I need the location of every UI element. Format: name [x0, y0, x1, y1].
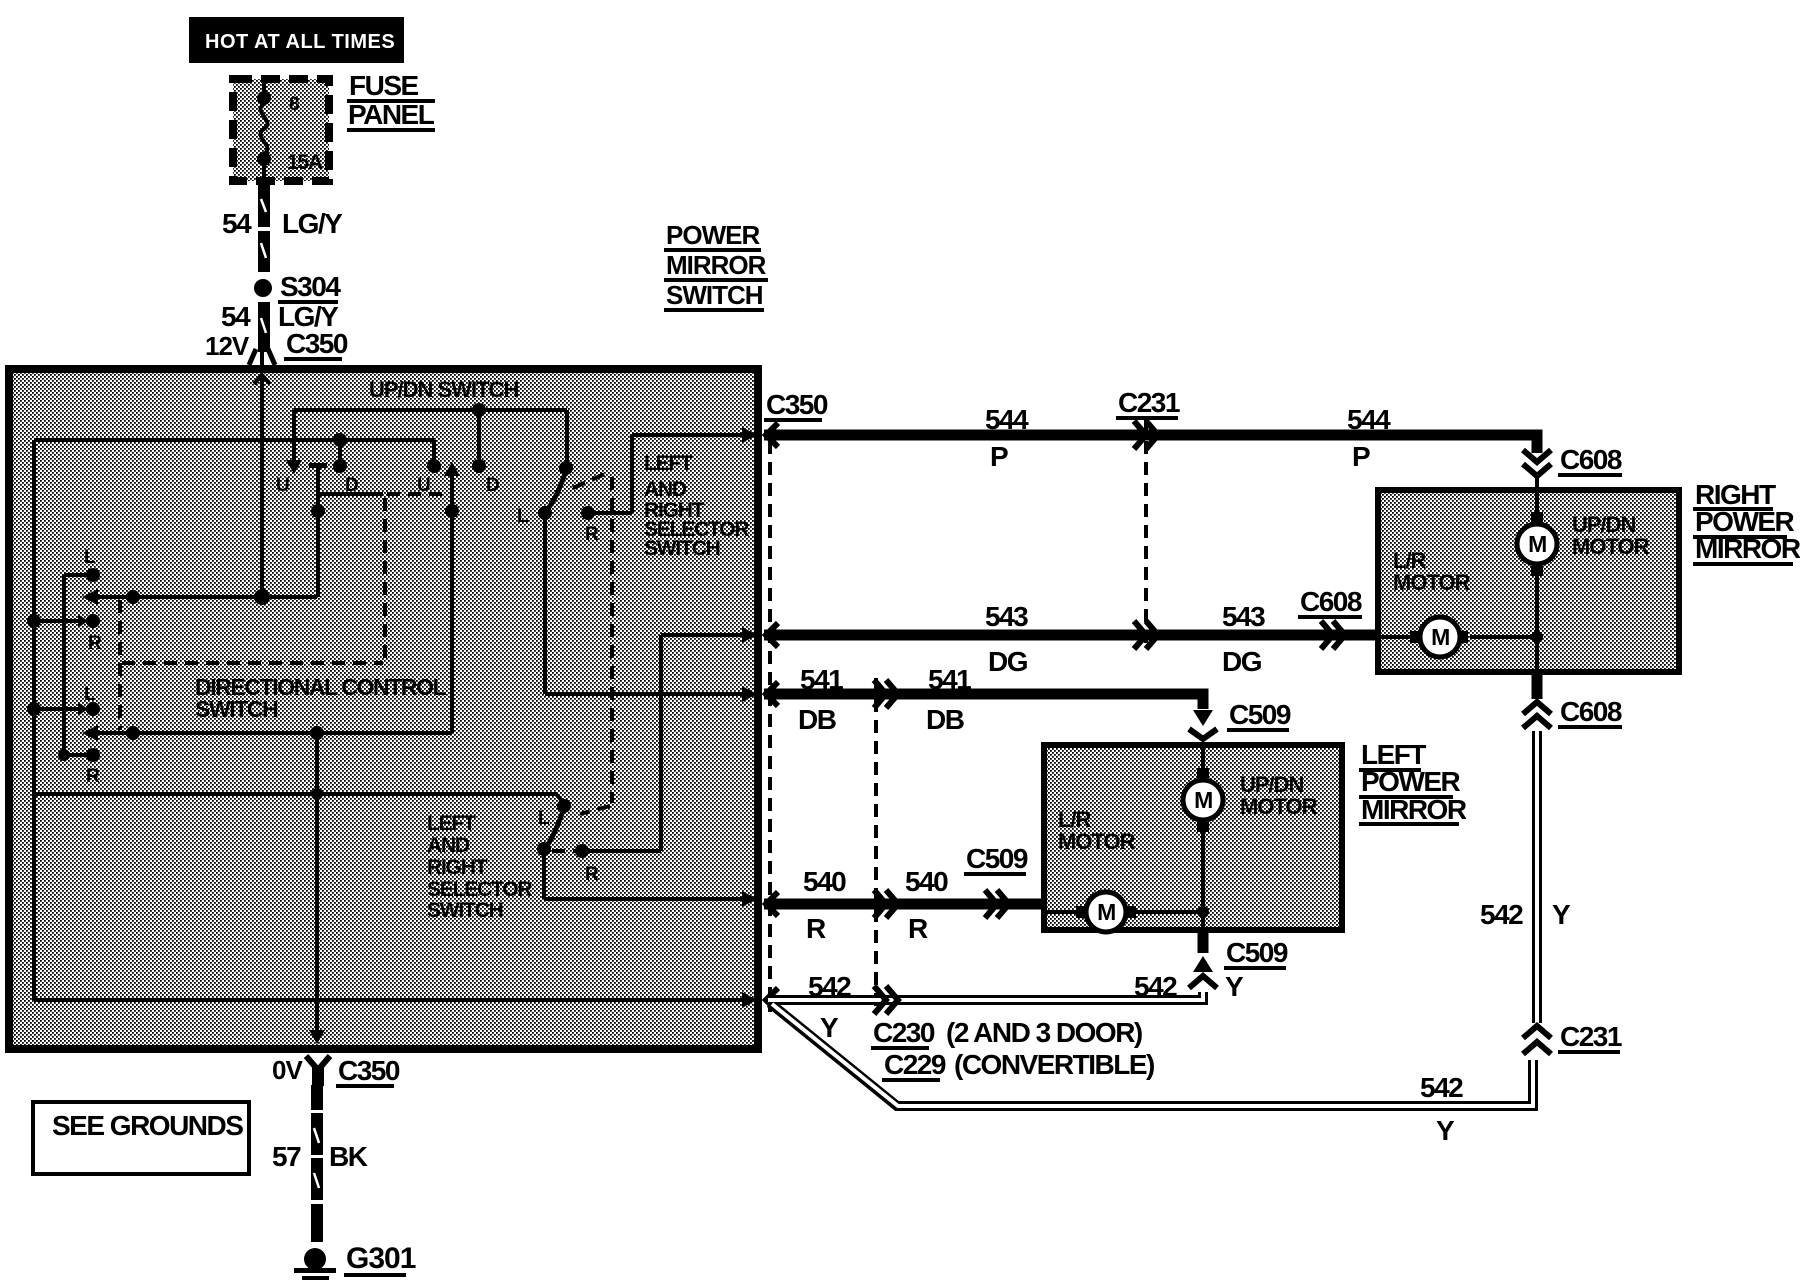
svg-text:AND: AND [427, 834, 470, 857]
svg-text:MOTOR: MOTOR [1240, 794, 1318, 819]
svg-text:M: M [1528, 531, 1546, 557]
svg-text:M: M [1097, 899, 1115, 925]
svg-text:U: U [276, 475, 289, 496]
svg-text:HOT AT ALL TIMES: HOT AT ALL TIMES [205, 31, 395, 53]
svg-text:Y: Y [1552, 899, 1571, 930]
svg-text:AND: AND [644, 478, 687, 501]
svg-text:12V: 12V [205, 331, 250, 361]
svg-text:0V: 0V [272, 1055, 303, 1085]
svg-text:15A: 15A [287, 151, 323, 174]
svg-text:U: U [417, 475, 430, 496]
svg-text:C509: C509 [1226, 937, 1288, 968]
svg-text:542: 542 [808, 971, 851, 1002]
svg-text:G301: G301 [346, 1242, 416, 1275]
svg-text:M: M [1431, 624, 1449, 650]
svg-text:SWITCH: SWITCH [644, 537, 720, 560]
svg-text:540: 540 [905, 866, 948, 897]
svg-text:544: 544 [1347, 404, 1391, 435]
svg-text:54: 54 [221, 301, 251, 332]
svg-text:SEE GROUNDS: SEE GROUNDS [52, 1110, 243, 1141]
svg-text:LEFT: LEFT [644, 452, 693, 475]
svg-text:POWER: POWER [1361, 766, 1461, 797]
svg-text:MIRROR: MIRROR [1361, 794, 1467, 825]
svg-text:Y: Y [1225, 971, 1244, 1002]
svg-text:C350: C350 [766, 389, 828, 420]
svg-text:R: R [86, 766, 100, 787]
svg-text:(CONVERTIBLE): (CONVERTIBLE) [954, 1049, 1154, 1080]
svg-text:BK: BK [329, 1141, 368, 1172]
svg-text:R: R [88, 633, 102, 654]
svg-text:543: 543 [985, 601, 1028, 632]
svg-text:PANEL: PANEL [348, 99, 435, 130]
svg-text:FUSE: FUSE [349, 70, 419, 101]
svg-text:54: 54 [222, 208, 252, 239]
svg-text:540: 540 [803, 866, 846, 897]
svg-text:LEFT: LEFT [427, 812, 476, 835]
svg-text:DG: DG [1222, 646, 1262, 677]
svg-text:(2 AND 3 DOOR): (2 AND 3 DOOR) [946, 1017, 1142, 1048]
svg-text:LG/Y: LG/Y [282, 208, 343, 239]
svg-text:R: R [585, 864, 599, 885]
svg-text:SELECTOR: SELECTOR [427, 878, 532, 901]
svg-text:C608: C608 [1560, 444, 1622, 475]
svg-text:P: P [990, 441, 1008, 472]
svg-text:D: D [486, 475, 499, 496]
svg-text:57: 57 [272, 1141, 301, 1172]
svg-text:L: L [517, 506, 529, 527]
svg-text:SWITCH: SWITCH [666, 280, 763, 310]
svg-text:MIRROR: MIRROR [666, 250, 767, 280]
svg-text:R: R [806, 913, 826, 944]
svg-text:542: 542 [1420, 1072, 1463, 1103]
svg-text:UP/DN SWITCH: UP/DN SWITCH [369, 377, 518, 402]
svg-text:RIGHT: RIGHT [427, 856, 488, 879]
svg-text:542: 542 [1134, 971, 1177, 1002]
svg-text:C509: C509 [966, 843, 1028, 874]
svg-text:M: M [1194, 787, 1212, 813]
svg-text:DG: DG [988, 646, 1028, 677]
svg-text:POWER: POWER [666, 220, 760, 250]
svg-text:541: 541 [800, 664, 843, 695]
svg-text:SWITCH: SWITCH [195, 696, 278, 722]
svg-text:Y: Y [1436, 1115, 1455, 1146]
svg-text:C231: C231 [1560, 1021, 1622, 1052]
svg-text:L: L [84, 547, 96, 568]
svg-text:D: D [345, 475, 358, 496]
svg-text:MOTOR: MOTOR [1572, 534, 1650, 559]
svg-text:C608: C608 [1560, 696, 1622, 727]
svg-text:C608: C608 [1300, 586, 1362, 617]
svg-text:MIRROR: MIRROR [1695, 533, 1800, 564]
svg-text:R: R [908, 913, 928, 944]
svg-text:C230: C230 [873, 1017, 935, 1048]
svg-text:C509: C509 [1229, 699, 1291, 730]
svg-text:S304: S304 [280, 271, 341, 302]
svg-text:R: R [585, 524, 599, 545]
svg-text:L: L [538, 808, 550, 829]
svg-text:DB: DB [926, 704, 964, 735]
svg-text:MOTOR: MOTOR [1058, 829, 1136, 854]
svg-text:C231: C231 [1118, 387, 1180, 418]
svg-text:Y: Y [820, 1012, 839, 1043]
svg-text:SWITCH: SWITCH [427, 899, 503, 922]
svg-text:DB: DB [798, 704, 836, 735]
svg-text:543: 543 [1222, 601, 1265, 632]
svg-text:C350: C350 [286, 328, 348, 359]
svg-text:8: 8 [289, 94, 299, 115]
svg-text:L: L [84, 684, 96, 705]
svg-text:C229: C229 [884, 1049, 946, 1080]
svg-text:542: 542 [1480, 899, 1523, 930]
svg-text:C350: C350 [338, 1055, 400, 1086]
svg-text:MOTOR: MOTOR [1393, 570, 1471, 595]
svg-text:541: 541 [928, 664, 971, 695]
svg-text:544: 544 [985, 404, 1029, 435]
svg-text:P: P [1352, 441, 1370, 472]
